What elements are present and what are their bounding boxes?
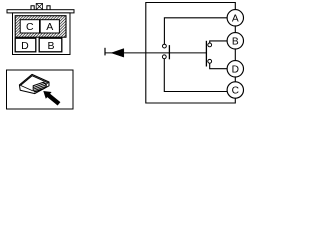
svg-text:B: B bbox=[47, 40, 54, 52]
wire terminator bar bbox=[104, 48, 106, 56]
svg-text:C: C bbox=[26, 21, 34, 33]
connector tab left bbox=[31, 6, 34, 10]
svg-text:A: A bbox=[232, 14, 239, 25]
connector tab right bbox=[47, 6, 50, 10]
pin cavity C bbox=[20, 20, 39, 33]
arrow pointing to connector face bbox=[43, 91, 60, 106]
switch contact upper left bbox=[163, 44, 167, 48]
pin cavity D bbox=[15, 38, 36, 52]
switch blade right bbox=[205, 41, 207, 67]
switch contact lower left bbox=[162, 55, 166, 59]
connector top cavity block (hatched) bbox=[15, 16, 66, 38]
svg-text:D: D bbox=[232, 65, 239, 76]
svg-text:B: B bbox=[232, 37, 239, 48]
switch contact upper right bbox=[208, 43, 212, 47]
switch contact lower right bbox=[208, 59, 212, 63]
pin cavity B bbox=[39, 38, 62, 52]
svg-text:D: D bbox=[21, 40, 29, 52]
connector housing flange bbox=[7, 10, 74, 13]
component outline box bbox=[146, 3, 236, 104]
connector 3D icon bbox=[19, 74, 49, 93]
wire from arrow into switch bbox=[105, 52, 206, 54]
wire to terminal B bbox=[210, 41, 227, 43]
terminal A bbox=[227, 10, 243, 26]
connector body outline bbox=[13, 13, 71, 55]
svg-text:A: A bbox=[46, 21, 53, 33]
connector view box bbox=[7, 70, 74, 109]
terminal B bbox=[227, 33, 243, 49]
terminal C bbox=[227, 82, 243, 98]
svg-text:C: C bbox=[232, 86, 239, 97]
harness arrow bbox=[111, 49, 124, 58]
pin cavity A bbox=[40, 20, 59, 33]
wire to terminal D bbox=[210, 63, 228, 68]
wire to terminal A bbox=[164, 18, 227, 44]
switch blade left bbox=[168, 45, 170, 59]
terminal D bbox=[227, 61, 243, 77]
connector lock with X bbox=[36, 4, 42, 10]
wire to terminal C bbox=[164, 59, 227, 92]
